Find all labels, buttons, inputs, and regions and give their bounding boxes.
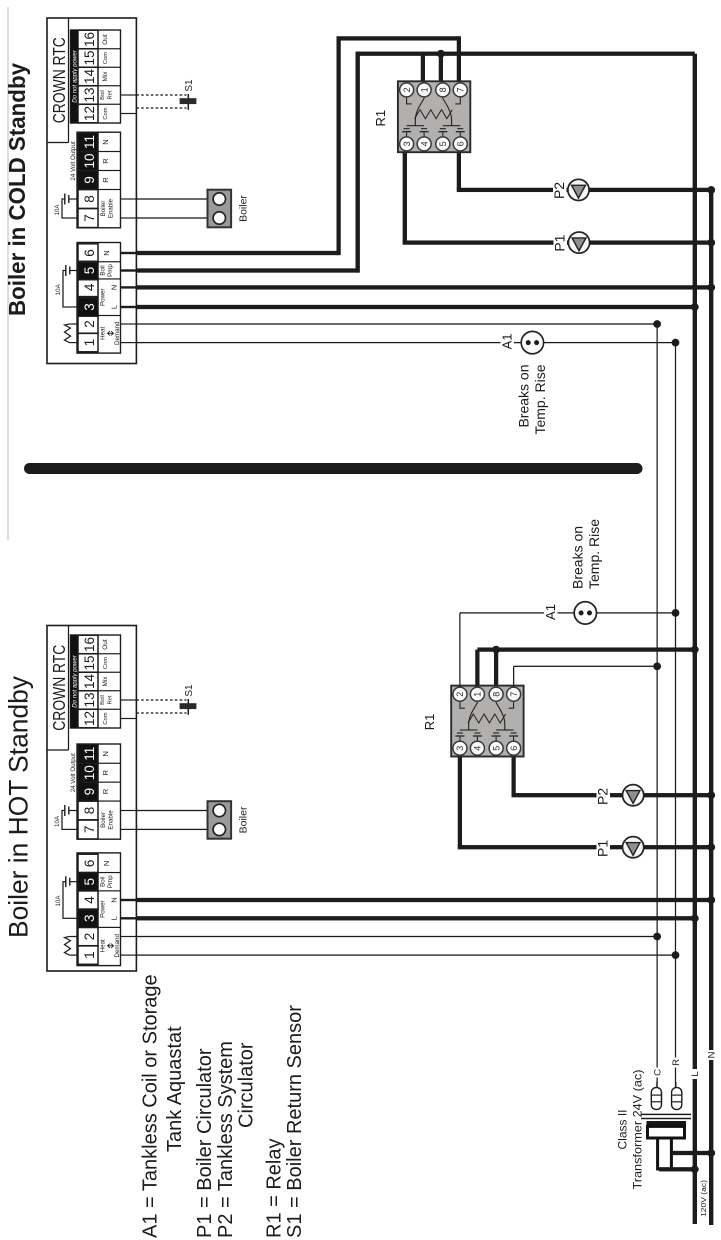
svg-text:7: 7 [456, 87, 466, 92]
svg-text:11: 11 [82, 747, 97, 761]
svg-text:L: L [690, 1071, 701, 1076]
svg-text:5: 5 [438, 141, 448, 146]
svg-text:4: 4 [419, 141, 429, 146]
svg-text:Heat: Heat [100, 939, 107, 952]
svg-text:Pmp: Pmp [107, 875, 114, 888]
svg-text:Boil: Boil [100, 877, 107, 887]
svg-text:120V (ac): 120V (ac) [699, 1180, 708, 1217]
svg-text:N: N [707, 1051, 718, 1058]
svg-text:Com: Com [103, 657, 109, 669]
svg-text:7: 7 [82, 214, 97, 222]
svg-text:13: 13 [82, 87, 97, 102]
svg-text:Temp. Rise: Temp. Rise [532, 364, 548, 434]
svg-text:Pmp: Pmp [107, 264, 114, 277]
svg-text:Out: Out [102, 639, 109, 650]
svg-text:4: 4 [82, 896, 97, 904]
svg-text:10: 10 [82, 765, 97, 780]
svg-text:Out: Out [102, 34, 109, 45]
svg-text:2: 2 [82, 933, 97, 941]
svg-text:8: 8 [82, 195, 97, 203]
svg-text:Boiler: Boiler [100, 812, 107, 828]
svg-text:3: 3 [455, 746, 465, 751]
svg-text:8: 8 [491, 692, 501, 697]
svg-text:L: L [110, 305, 119, 309]
svg-text:Demand: Demand [114, 321, 121, 345]
svg-text:P1 = Boiler Circulator: P1 = Boiler Circulator [194, 1048, 216, 1238]
svg-text:Com: Com [103, 52, 109, 64]
svg-text:16: 16 [82, 637, 97, 652]
svg-text:N: N [101, 139, 110, 144]
svg-text:12: 12 [82, 711, 97, 726]
svg-text:Mix: Mix [102, 71, 109, 82]
svg-text:13: 13 [82, 692, 97, 707]
svg-text:Com: Com [103, 712, 109, 724]
svg-text:12: 12 [82, 106, 97, 121]
svg-text:P1: P1 [552, 234, 568, 251]
svg-text:Com: Com [103, 107, 109, 119]
svg-text:R: R [101, 788, 110, 794]
svg-text:Boiler in HOT Standby: Boiler in HOT Standby [4, 675, 34, 938]
svg-text:1: 1 [419, 87, 429, 92]
svg-text:11: 11 [82, 135, 97, 149]
svg-text:A1: A1 [500, 333, 515, 349]
svg-text:14: 14 [82, 69, 97, 85]
svg-text:3: 3 [82, 303, 97, 311]
svg-text:Enable: Enable [108, 810, 115, 830]
svg-text:2: 2 [82, 320, 97, 328]
svg-text:N: N [101, 751, 110, 756]
svg-text:5: 5 [491, 746, 501, 751]
svg-text:Ret: Ret [108, 90, 114, 99]
svg-text:S1 = Boiler Return Sensor: S1 = Boiler Return Sensor [284, 1005, 306, 1238]
svg-text:10A: 10A [55, 895, 62, 907]
svg-text:Breaks on: Breaks on [570, 526, 586, 589]
svg-text:8: 8 [438, 87, 448, 92]
svg-text:6: 6 [82, 860, 97, 868]
svg-text:Demand: Demand [114, 934, 121, 958]
svg-text:Power: Power [100, 288, 107, 306]
svg-text:A1: A1 [543, 604, 558, 620]
svg-text:N: N [102, 861, 111, 866]
svg-text:N: N [102, 250, 111, 255]
svg-text:Enable: Enable [108, 198, 115, 218]
svg-text:5: 5 [82, 267, 97, 275]
svg-text:9: 9 [82, 176, 97, 184]
svg-text:N: N [110, 285, 119, 290]
svg-text:P1: P1 [595, 840, 611, 857]
svg-text:Temp. Rise: Temp. Rise [586, 519, 602, 589]
svg-text:R: R [101, 158, 110, 164]
svg-text:6: 6 [509, 746, 519, 751]
svg-text:R: R [101, 177, 110, 183]
svg-text:CROWN RTC: CROWN RTC [49, 645, 69, 731]
svg-text:24 Volt Output: 24 Volt Output [70, 753, 77, 792]
svg-text:P2: P2 [551, 182, 567, 199]
svg-text:Power: Power [100, 900, 107, 918]
svg-text:6: 6 [456, 141, 466, 146]
svg-text:R1: R1 [422, 714, 437, 731]
svg-text:3: 3 [402, 141, 412, 146]
svg-text:L: L [110, 916, 119, 920]
svg-text:Boiler in COLD Standby: Boiler in COLD Standby [4, 63, 30, 316]
svg-text:A1 = Tankless Coil or Storage: A1 = Tankless Coil or Storage [140, 974, 162, 1238]
svg-text:5: 5 [82, 878, 97, 886]
svg-text:4: 4 [473, 746, 483, 751]
svg-text:2: 2 [455, 692, 465, 697]
svg-text:Tank Aquastat: Tank Aquastat [164, 1026, 186, 1152]
svg-text:Class II: Class II [616, 1109, 630, 1149]
svg-text:S1: S1 [184, 79, 195, 92]
svg-text:7: 7 [509, 692, 519, 697]
svg-text:10A: 10A [54, 815, 61, 827]
svg-text:Transformer 24V (ac): Transformer 24V (ac) [631, 1070, 645, 1190]
svg-text:4: 4 [82, 283, 97, 291]
svg-text:10: 10 [82, 153, 97, 168]
svg-text:2: 2 [402, 87, 412, 92]
svg-text:24 Volt Output: 24 Volt Output [70, 141, 77, 180]
svg-text:1: 1 [82, 339, 97, 347]
svg-text:Mix: Mix [102, 676, 109, 687]
svg-text:9: 9 [82, 788, 97, 796]
svg-text:R1 = Relay: R1 = Relay [264, 1139, 286, 1239]
svg-text:Boiler: Boiler [238, 195, 250, 222]
svg-text:14: 14 [82, 674, 97, 690]
svg-text:1: 1 [82, 951, 97, 959]
svg-text:Boil: Boil [100, 90, 106, 100]
svg-text:S1: S1 [184, 684, 195, 697]
svg-text:R: R [101, 769, 110, 775]
svg-text:Boil: Boil [100, 265, 107, 275]
svg-text:15: 15 [82, 50, 97, 65]
svg-text:7: 7 [82, 826, 97, 834]
svg-text:Boiler: Boiler [100, 201, 107, 217]
svg-text:10A: 10A [54, 204, 61, 216]
svg-text:Boil: Boil [100, 695, 106, 705]
svg-text:6: 6 [82, 249, 97, 257]
svg-text:R1: R1 [373, 110, 388, 127]
svg-text:R: R [671, 1059, 682, 1066]
svg-text:16: 16 [82, 32, 97, 47]
svg-text:N: N [110, 897, 119, 902]
svg-text:10A: 10A [55, 283, 62, 295]
svg-text:Boiler: Boiler [238, 806, 250, 833]
svg-text:CROWN RTC: CROWN RTC [49, 37, 69, 123]
svg-text:8: 8 [82, 807, 97, 815]
svg-text:15: 15 [82, 655, 97, 670]
svg-text:Circulator: Circulator [236, 1042, 258, 1128]
svg-text:P2 = Tankless System: P2 = Tankless System [215, 1041, 237, 1238]
svg-text:C: C [653, 1069, 664, 1076]
svg-text:P2: P2 [595, 788, 611, 805]
svg-text:Breaks on: Breaks on [516, 365, 532, 428]
svg-text:Ret: Ret [108, 695, 114, 704]
svg-text:Heat: Heat [100, 326, 107, 339]
svg-text:3: 3 [82, 915, 97, 923]
svg-text:1: 1 [473, 692, 483, 697]
